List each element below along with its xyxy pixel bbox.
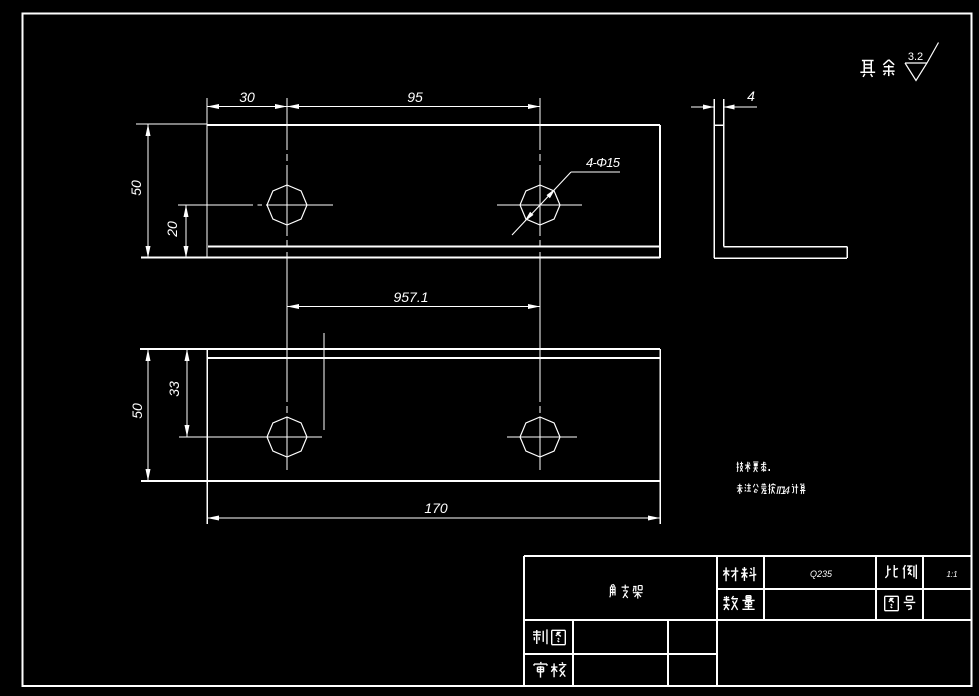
dimension 50 (front) arrows — [146, 124, 151, 258]
side view horizontal leg — [714, 247, 847, 259]
dimension text 50 (bottom) rotated — [129, 403, 145, 419]
dimension text 170 — [424, 500, 448, 516]
label shen he (checked by) — [534, 662, 566, 678]
technical requirements colon — [769, 469, 771, 471]
hole H3 horizontal centerline — [179, 436, 322, 438]
dimension 20 line — [185, 205, 187, 258]
dimension 4 arrows — [703, 105, 735, 110]
surface finish note: qi yu characters — [860, 60, 894, 77]
svg-text:20: 20 — [164, 221, 180, 238]
technical requirements line 2 tail — [792, 484, 806, 494]
bottom view sides extended for dim 170 — [207, 349, 660, 524]
dimension 50 (bottom) arrows — [146, 349, 151, 481]
technical requirements heading — [737, 462, 767, 472]
hole H4 horizontal centerline — [507, 436, 577, 438]
stray vertical segment — [323, 333, 325, 430]
technical requirements line 2 — [737, 483, 775, 494]
scale value 1:1 — [946, 570, 957, 579]
dimension 4 lines — [691, 106, 757, 108]
svg-text:Q235: Q235 — [810, 569, 833, 579]
label bi li (scale) — [885, 565, 916, 579]
title: part name jiao zhi jia — [610, 584, 643, 598]
hole H1 horizontal centerline — [178, 204, 333, 206]
front view left edge with extension — [206, 98, 208, 258]
dimension 170 arrows — [207, 516, 660, 521]
front view outline — [141, 125, 660, 258]
dimension 33 arrows — [185, 349, 190, 437]
bottom view bottom edge — [141, 480, 660, 482]
dimension text 20 rotated — [164, 221, 180, 238]
surface finish symbol 3.2 value — [908, 51, 923, 63]
dimension text 33 rotated — [166, 381, 182, 397]
label shu liang (quantity) — [723, 596, 754, 610]
hole H2 horizontal centerline — [497, 204, 582, 206]
dimension text 50 (front) rotated — [128, 180, 144, 196]
dimension 20 arrows — [184, 205, 189, 258]
side view vertical leg — [714, 99, 724, 258]
material value Q235 — [810, 569, 833, 579]
label tu hao (drawing no.) — [885, 596, 916, 610]
dimension 30 arrows — [207, 104, 287, 109]
svg-text:170: 170 — [424, 500, 448, 516]
svg-text:3.2: 3.2 — [908, 51, 923, 63]
svg-text:IT14: IT14 — [776, 485, 790, 497]
hole H1 front view — [267, 185, 307, 225]
hole H3 bottom view — [267, 417, 307, 457]
svg-text:50: 50 — [129, 403, 145, 419]
centerline through holes column 1 — [286, 98, 288, 470]
surface finish check symbol — [905, 43, 939, 81]
leader text 4-phi15 — [586, 155, 621, 170]
svg-text:95: 95 — [407, 89, 423, 105]
dimension 170 line — [207, 517, 660, 519]
dimension 30/95 line — [207, 106, 540, 108]
leader 4-d15 diagonal — [512, 172, 571, 235]
dimension text 4 — [747, 88, 755, 104]
dimension 95 arrows — [287, 104, 540, 109]
dimension text 30 — [239, 89, 255, 105]
dimension 50 (bottom) line — [147, 349, 149, 481]
label zhi tu (drawn by) — [533, 629, 565, 644]
dimension 50 (front) line — [147, 124, 149, 258]
svg-text:957.1: 957.1 — [393, 289, 428, 305]
label cai liao (material) — [723, 567, 756, 581]
svg-text:50: 50 — [128, 180, 144, 196]
dimension 957.1 line — [287, 306, 540, 308]
technical requirements IT14 — [776, 485, 790, 497]
dimension text 957.1 — [393, 289, 428, 305]
hole H2 front view — [520, 185, 560, 225]
leader arrows at hole edge — [524, 188, 556, 222]
bottom view top edge with extension — [140, 349, 660, 358]
dimension 33 line — [186, 349, 188, 437]
svg-text:4: 4 — [747, 88, 755, 104]
dimension 957.1 arrows — [287, 304, 540, 309]
svg-text:4-Φ15: 4-Φ15 — [586, 155, 621, 170]
hole H4 bottom view — [520, 417, 560, 457]
centerline through holes column 2 — [539, 98, 541, 470]
dimension text 95 — [407, 89, 423, 105]
title block grid — [524, 556, 972, 686]
dimension 50 (front) extension top — [136, 123, 207, 125]
svg-text:33: 33 — [166, 381, 182, 397]
svg-text:30: 30 — [239, 89, 255, 105]
svg-text:1:1: 1:1 — [946, 570, 957, 579]
